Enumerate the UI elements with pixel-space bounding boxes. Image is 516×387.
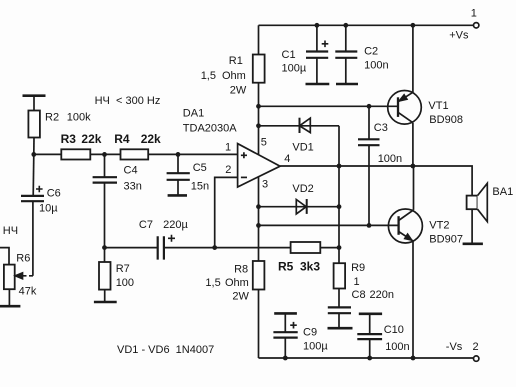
svg-text:C1: C1: [282, 49, 296, 61]
svg-text:-Vs: -Vs: [446, 341, 463, 353]
svg-text:R6: R6: [16, 253, 30, 265]
svg-text:R7: R7: [116, 263, 130, 275]
svg-text:C7: C7: [139, 219, 153, 231]
svg-text:Ohm: Ohm: [222, 70, 246, 82]
svg-text:R3: R3: [61, 132, 77, 146]
svg-text:R9: R9: [351, 262, 365, 274]
svg-text:22k: 22k: [141, 132, 161, 146]
svg-text:47k: 47k: [19, 285, 37, 297]
svg-text:C9: C9: [303, 326, 317, 338]
svg-text:100: 100: [116, 277, 134, 289]
svg-text:33n: 33n: [124, 181, 142, 193]
svg-text:TDA2030A: TDA2030A: [183, 122, 237, 134]
svg-text:1,5: 1,5: [205, 277, 220, 289]
svg-text:C6: C6: [47, 187, 61, 199]
svg-text:НЧ < 300 Hz: НЧ < 300 Hz: [95, 95, 161, 107]
svg-text:C10: C10: [384, 324, 404, 336]
svg-text:R8: R8: [234, 263, 248, 275]
svg-text:3k3: 3k3: [300, 259, 320, 273]
svg-text:100n: 100n: [378, 153, 402, 165]
svg-text:VD1 - VD6 1N4007: VD1 - VD6 1N4007: [117, 344, 214, 356]
svg-text:100µ: 100µ: [303, 340, 328, 352]
svg-text:C4: C4: [124, 164, 138, 176]
svg-text:BD907: BD907: [429, 233, 463, 245]
svg-text:2: 2: [225, 164, 231, 176]
svg-text:C5: C5: [193, 162, 207, 174]
svg-text:3: 3: [262, 179, 268, 191]
svg-text:R2: R2: [45, 111, 59, 123]
svg-text:220n: 220n: [370, 289, 394, 301]
svg-text:VT2: VT2: [429, 220, 449, 232]
svg-text:5: 5: [261, 136, 267, 148]
svg-text:22k: 22k: [81, 132, 101, 146]
svg-text:BA1: BA1: [492, 186, 513, 198]
svg-text:R5: R5: [278, 259, 294, 273]
svg-text:220µ: 220µ: [163, 219, 188, 231]
svg-text:C3: C3: [374, 122, 388, 134]
svg-text:15n: 15n: [191, 181, 209, 193]
svg-text:1: 1: [471, 8, 477, 20]
svg-text:R1: R1: [229, 55, 243, 67]
svg-text:C8: C8: [352, 289, 366, 301]
svg-text:+Vs: +Vs: [449, 29, 469, 41]
svg-text:R4: R4: [114, 132, 130, 146]
svg-text:VT1: VT1: [428, 100, 448, 112]
svg-text:DA1: DA1: [183, 108, 204, 120]
svg-text:BD908: BD908: [429, 114, 463, 126]
svg-text:100µ: 100µ: [282, 63, 307, 75]
svg-text:1: 1: [225, 141, 231, 153]
svg-text:100n: 100n: [385, 341, 409, 353]
svg-text:10µ: 10µ: [39, 202, 58, 214]
svg-text:VD2: VD2: [292, 183, 313, 195]
svg-text:НЧ: НЧ: [3, 225, 18, 237]
svg-text:100n: 100n: [364, 60, 388, 72]
svg-text:C2: C2: [364, 46, 378, 58]
svg-text:Ohm: Ohm: [225, 277, 249, 289]
svg-text:1: 1: [354, 276, 360, 288]
svg-text:1,5: 1,5: [201, 70, 216, 82]
svg-text:2: 2: [473, 341, 479, 353]
svg-text:4: 4: [284, 153, 290, 165]
svg-text:100k: 100k: [67, 111, 91, 123]
svg-text:VD1: VD1: [292, 142, 313, 154]
svg-text:2W: 2W: [232, 291, 249, 303]
svg-text:2W: 2W: [230, 84, 247, 96]
